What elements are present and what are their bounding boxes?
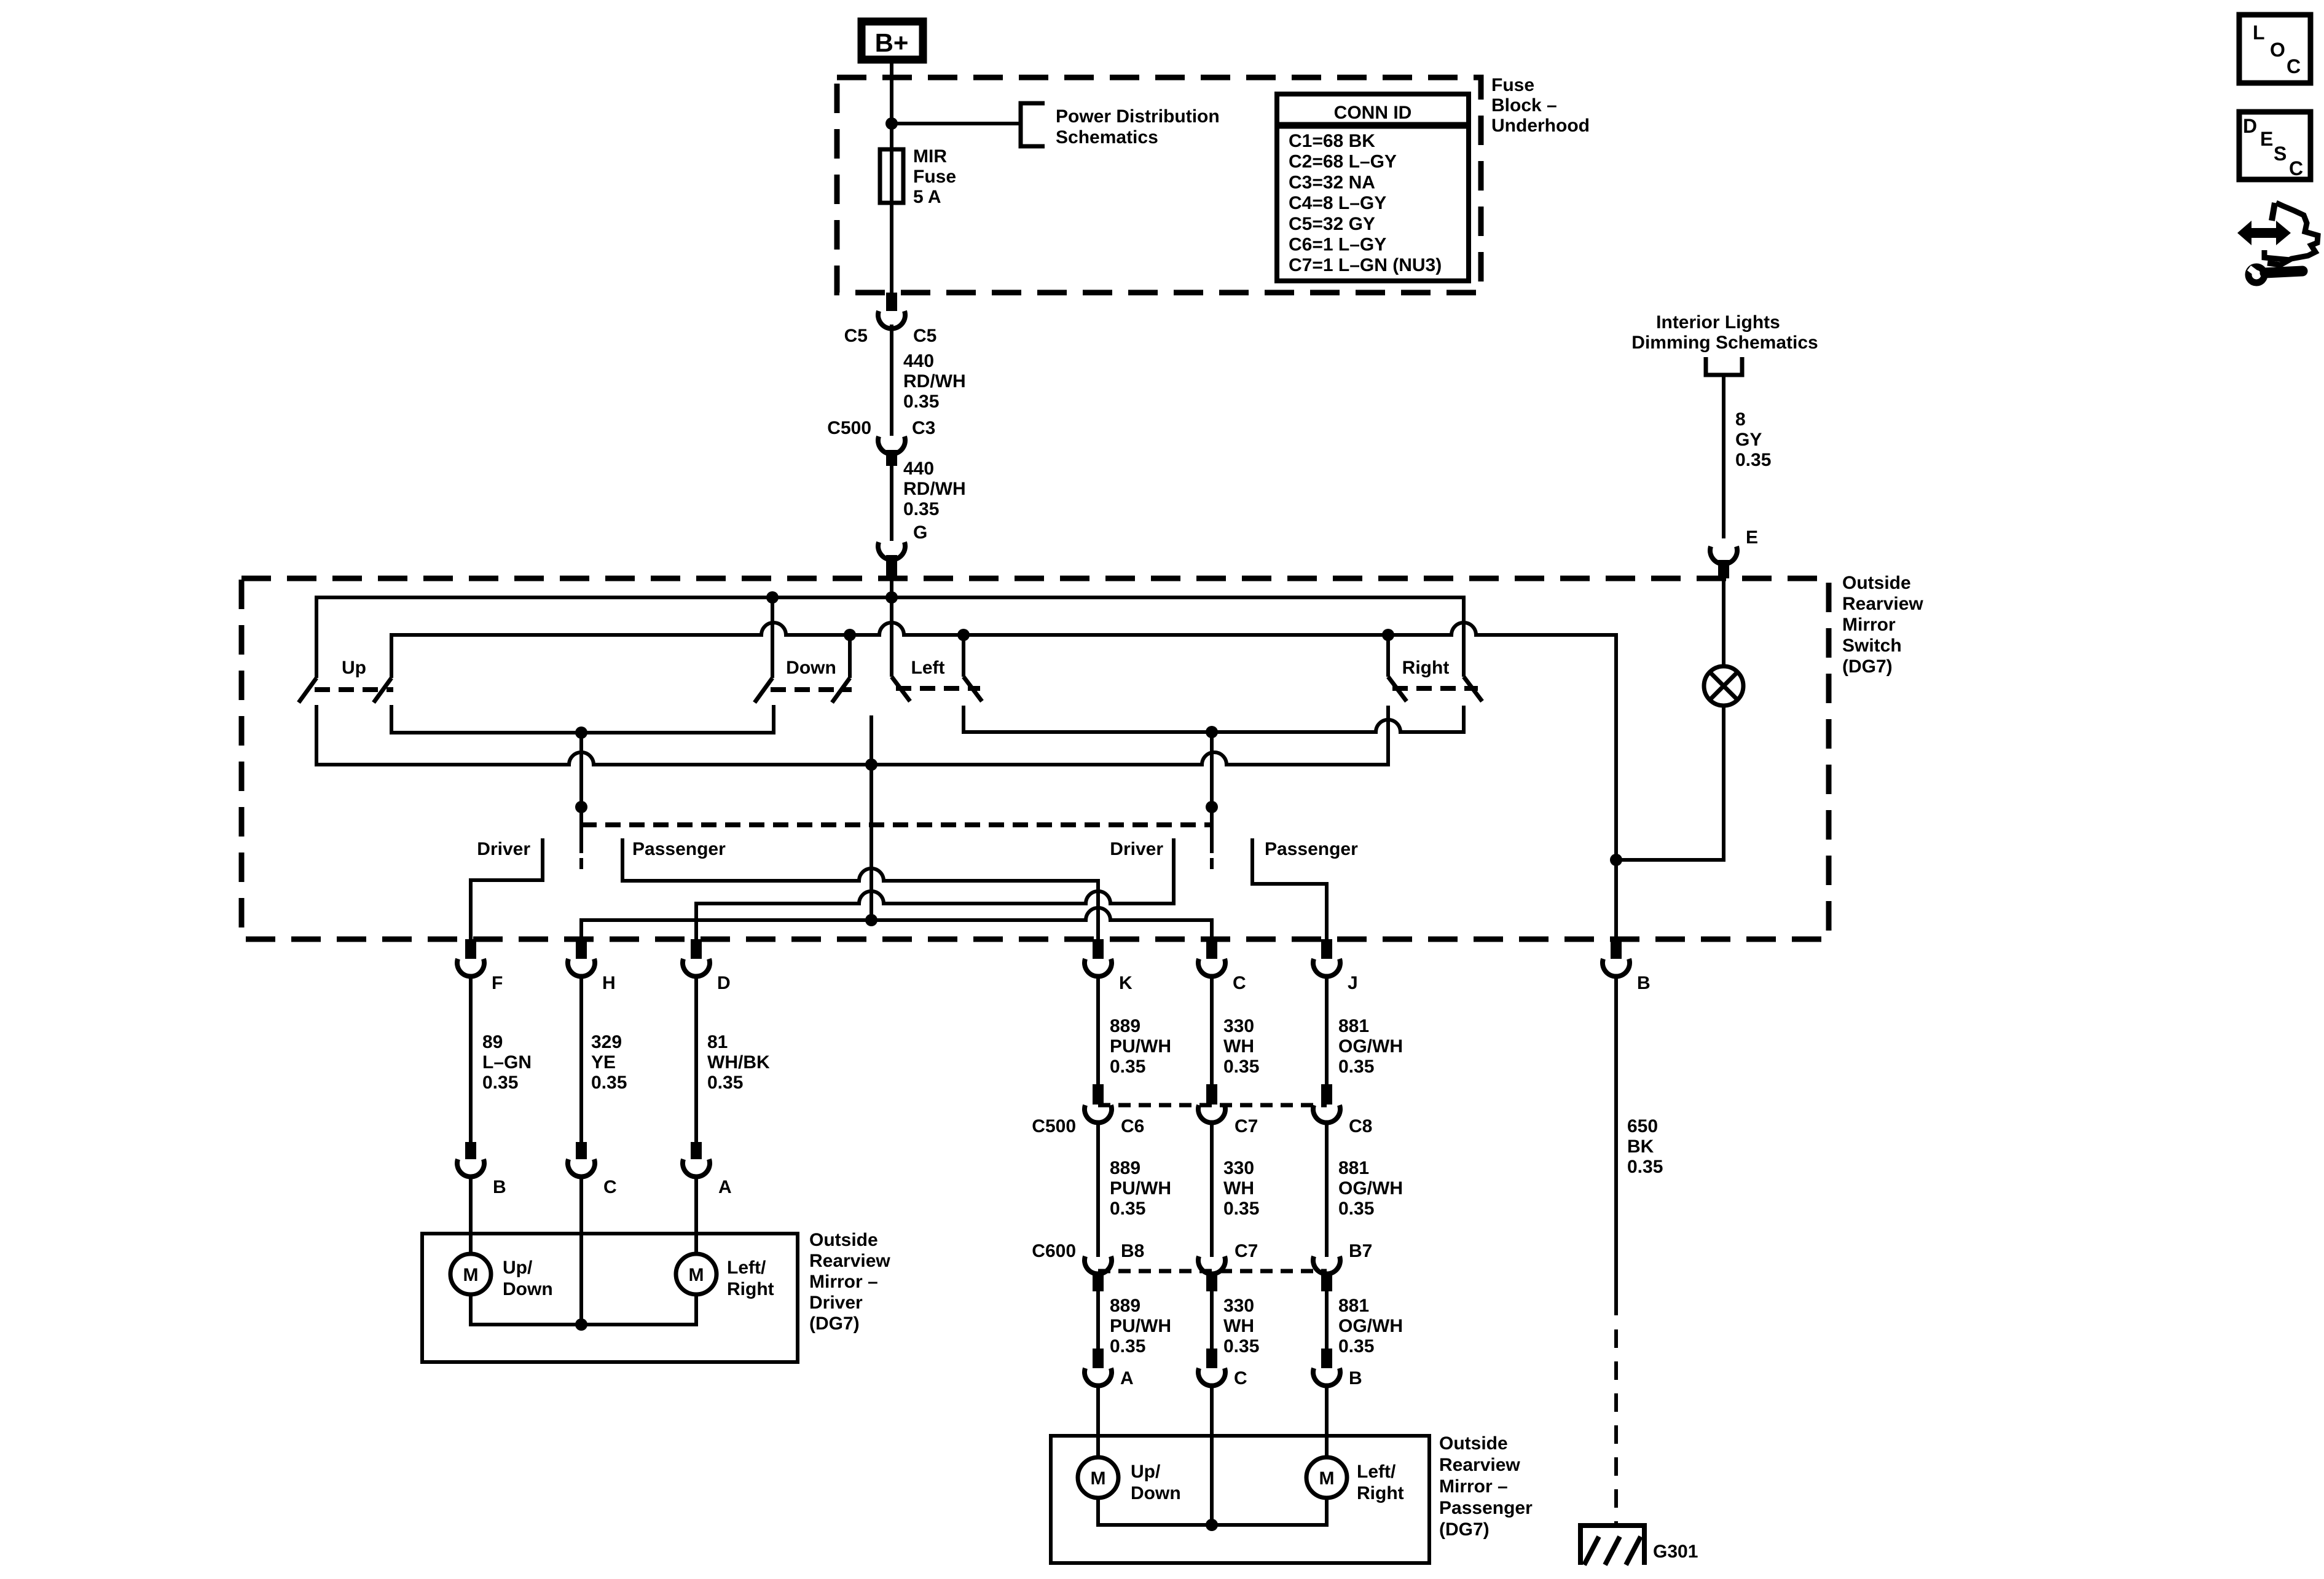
svg-text:Up: Up	[342, 658, 366, 678]
connector C500 C8	[1313, 1105, 1340, 1123]
wire 889 PU/WH 0.35 (a)	[1096, 976, 1100, 1084]
svg-text:C500: C500	[827, 418, 871, 438]
svg-text:B7: B7	[1349, 1241, 1372, 1261]
wire 881 OG/WH 0.35 (c)	[1325, 1291, 1329, 1349]
svg-text:881: 881	[1338, 1296, 1369, 1316]
svg-text:0.35: 0.35	[1223, 1199, 1259, 1219]
DESC reference box	[2239, 112, 2310, 179]
svg-text:Rearview: Rearview	[1439, 1455, 1520, 1475]
wire 881 OG/WH 0.35 (b)	[1325, 1122, 1329, 1257]
svg-text:5 A: 5 A	[913, 187, 941, 207]
svg-text:330: 330	[1223, 1016, 1254, 1036]
wire Left-Right outputs W3	[964, 706, 1464, 732]
svg-text:Interior Lights: Interior Lights	[1656, 312, 1780, 333]
svg-text:0.35: 0.35	[1627, 1157, 1663, 1177]
wire selector right common	[1210, 732, 1214, 853]
svg-text:Driver: Driver	[1110, 839, 1163, 859]
connector passenger mirror B	[1313, 1368, 1340, 1386]
navigation icon	[2237, 221, 2291, 245]
svg-text:G: G	[913, 522, 927, 543]
connector driver mirror B	[457, 1159, 484, 1177]
switch Down blades	[755, 678, 772, 703]
wire 89 L-GN 0.35	[469, 976, 473, 1142]
node passenger common	[1206, 1519, 1218, 1531]
svg-text:PU/WH: PU/WH	[1110, 1036, 1171, 1057]
bracket Power Distribution Schematics	[1021, 103, 1045, 146]
connector driver mirror B stub	[465, 1142, 476, 1159]
svg-text:0.35: 0.35	[903, 392, 939, 412]
svg-text:Passenger: Passenger	[1265, 839, 1358, 859]
svg-text:C6=1 L–GY: C6=1 L–GY	[1289, 235, 1386, 255]
wire top bus	[316, 597, 1464, 678]
svg-text:PU/WH: PU/WH	[1110, 1178, 1171, 1199]
connector C600 C7b	[1198, 1256, 1225, 1274]
svg-text:0.35: 0.35	[1338, 1057, 1374, 1077]
node bus Down right	[844, 629, 856, 641]
connector driver mirror A stub	[691, 1142, 702, 1159]
svg-text:Down: Down	[1131, 1483, 1181, 1503]
wire 889 PU/WH 0.35 (b)	[1096, 1122, 1100, 1257]
wire 440 RD/WH lower	[890, 466, 893, 541]
connector C600 dashed link	[1098, 1269, 1327, 1274]
motor passenger up/down	[1078, 1457, 1118, 1498]
wire 81 WH/BK 0.35	[694, 976, 698, 1142]
svg-text:M: M	[689, 1265, 704, 1285]
connector F	[457, 959, 484, 977]
svg-text:0.35: 0.35	[1338, 1199, 1374, 1219]
node driver common	[575, 1318, 587, 1331]
svg-text:C1=68 BK: C1=68 BK	[1289, 131, 1375, 151]
wire Driver contact to D	[696, 838, 1174, 939]
wire to power distribution bracket	[892, 122, 1021, 125]
connector driver mirror C	[568, 1159, 595, 1177]
connector C600 B7	[1313, 1256, 1340, 1274]
svg-text:C: C	[2289, 157, 2303, 179]
svg-text:WH: WH	[1223, 1316, 1254, 1336]
connector J stub	[1321, 939, 1332, 959]
svg-text:GY: GY	[1735, 430, 1762, 450]
connector passenger mirror C stub	[1206, 1349, 1217, 1368]
svg-text:81: 81	[707, 1032, 728, 1052]
svg-text:881: 881	[1338, 1016, 1369, 1036]
wire 329 YE 0.35	[579, 976, 583, 1142]
svg-text:RD/WH: RD/WH	[903, 371, 966, 392]
svg-text:330: 330	[1223, 1296, 1254, 1316]
switch Left blades	[892, 677, 910, 701]
svg-text:Rearview: Rearview	[1842, 594, 1923, 614]
node W1 selector tap	[575, 726, 587, 739]
wire 881 OG/WH 0.35 (a)	[1325, 976, 1329, 1084]
connector C500 C8 stub	[1321, 1084, 1332, 1105]
connector B	[1603, 959, 1630, 977]
connector C600 B8 stub	[1093, 1274, 1104, 1291]
switch Up linkage	[315, 687, 393, 692]
svg-text:8: 8	[1735, 409, 1746, 430]
svg-text:Driver: Driver	[809, 1293, 863, 1313]
node selector right linkage	[1206, 801, 1218, 813]
node W3 selector tap	[1206, 726, 1218, 738]
passenger mirror box	[1051, 1436, 1429, 1563]
svg-text:0.35: 0.35	[707, 1073, 743, 1093]
svg-text:A: A	[1120, 1368, 1134, 1388]
wire Right switch left terminal	[1386, 635, 1390, 677]
svg-text:330: 330	[1223, 1158, 1254, 1178]
svg-text:(DG7): (DG7)	[1439, 1519, 1490, 1540]
connector F stub	[465, 939, 476, 959]
svg-text:OG/WH: OG/WH	[1338, 1316, 1403, 1336]
svg-text:0.35: 0.35	[482, 1073, 518, 1093]
wire 8 GY	[1722, 375, 1725, 538]
svg-text:C6: C6	[1121, 1116, 1144, 1136]
wire 330 WH 0.35 (c)	[1210, 1291, 1214, 1349]
svg-text:Left/: Left/	[1357, 1462, 1396, 1482]
svg-text:C: C	[1234, 1368, 1247, 1388]
svg-text:C7=1 L–GN (NU3): C7=1 L–GN (NU3)	[1289, 255, 1442, 275]
connector driver mirror C stub	[576, 1142, 587, 1159]
wire E into box	[1722, 578, 1725, 666]
fuse MIR 5 A	[880, 149, 903, 203]
ground G301	[1578, 1523, 1647, 1528]
selector right blade dash	[1210, 858, 1214, 869]
svg-text:Fuse: Fuse	[1491, 75, 1534, 95]
svg-text:E: E	[2260, 128, 2273, 150]
selector left blade dash	[579, 858, 583, 869]
svg-text:Outside: Outside	[1439, 1433, 1508, 1454]
svg-text:B8: B8	[1121, 1241, 1144, 1261]
svg-text:881: 881	[1338, 1158, 1369, 1178]
switch Right blades	[1388, 677, 1407, 701]
svg-text:YE: YE	[591, 1052, 616, 1073]
svg-text:(DG7): (DG7)	[809, 1313, 860, 1334]
svg-text:WH: WH	[1223, 1036, 1254, 1057]
connector C500 C7 stub	[1206, 1084, 1217, 1105]
wire Driver contact to F	[471, 838, 543, 939]
svg-text:M: M	[1091, 1468, 1106, 1489]
switch Right linkage	[1392, 686, 1478, 691]
svg-text:B: B	[1349, 1368, 1362, 1388]
connector C500 C6	[1085, 1105, 1112, 1123]
svg-text:0.35: 0.35	[591, 1073, 627, 1093]
svg-text:(DG7): (DG7)	[1842, 656, 1893, 677]
svg-text:440: 440	[903, 351, 934, 371]
svg-text:Left: Left	[911, 658, 945, 678]
svg-text:C5=32 GY: C5=32 GY	[1289, 214, 1375, 234]
svg-text:B: B	[493, 1177, 506, 1197]
svg-text:440: 440	[903, 459, 934, 479]
switch Left linkage	[896, 686, 980, 691]
svg-text:Right: Right	[727, 1279, 774, 1299]
svg-text:M: M	[1319, 1468, 1335, 1489]
CONN ID table	[1277, 94, 1469, 281]
wire selector left common	[579, 733, 583, 853]
svg-text:Left/: Left/	[727, 1258, 766, 1278]
connector D stub	[691, 939, 702, 959]
svg-text:C5: C5	[913, 326, 936, 346]
node center to common	[865, 914, 877, 926]
svg-text:Block –: Block –	[1491, 95, 1557, 116]
lamp illumination	[1704, 666, 1743, 706]
bracket interior lights	[1706, 357, 1742, 375]
svg-text:J: J	[1348, 973, 1358, 993]
connector passenger mirror A stub	[1093, 1349, 1104, 1368]
connector passenger mirror C	[1198, 1368, 1225, 1386]
svg-text:Mirror –: Mirror –	[1439, 1476, 1508, 1497]
svg-text:BK: BK	[1627, 1136, 1654, 1157]
node lamp ground	[1610, 854, 1622, 866]
connector B stub	[1611, 939, 1622, 959]
connector J	[1313, 959, 1340, 977]
wire driver motors common	[471, 1294, 696, 1325]
node bus Left right	[957, 629, 970, 641]
svg-text:329: 329	[591, 1032, 622, 1052]
wire Left switch right terminal	[962, 635, 965, 677]
svg-text:C5: C5	[844, 326, 868, 346]
node selector left linkage	[575, 801, 587, 813]
connector C500 C7	[1198, 1105, 1225, 1123]
svg-text:Switch: Switch	[1842, 636, 1902, 656]
svg-text:Down: Down	[503, 1279, 553, 1299]
node bus Right left	[1382, 629, 1394, 641]
wire C to driver common	[579, 1176, 583, 1325]
svg-text:Up/: Up/	[503, 1258, 533, 1278]
svg-text:Fuse: Fuse	[913, 167, 956, 187]
connector driver mirror A	[683, 1159, 710, 1177]
wire Down switch left terminal	[771, 597, 774, 678]
LOC reference box	[2239, 15, 2310, 83]
svg-text:C7: C7	[1235, 1241, 1258, 1261]
svg-text:RD/WH: RD/WH	[903, 479, 966, 499]
wire 650 BK dashed segment	[1614, 1329, 1618, 1526]
svg-text:Dimming Schematics: Dimming Schematics	[1631, 333, 1818, 353]
svg-text:889: 889	[1110, 1296, 1140, 1316]
motor driver left/right	[676, 1254, 716, 1294]
svg-text:WH: WH	[1223, 1178, 1254, 1199]
svg-text:0.35: 0.35	[1110, 1199, 1145, 1219]
wire B+ to fuse	[890, 62, 893, 293]
connector K	[1085, 959, 1112, 977]
mirror switch dashed box	[241, 578, 1829, 939]
svg-text:Mirror: Mirror	[1842, 615, 1896, 635]
wire C to passenger common	[1210, 1385, 1214, 1525]
wire B to passenger LR motor	[1325, 1385, 1329, 1457]
wire Passenger contact to K	[622, 838, 1098, 939]
svg-text:0.35: 0.35	[1110, 1336, 1145, 1357]
svg-text:C3=32 NA: C3=32 NA	[1289, 172, 1375, 192]
svg-text:C3: C3	[912, 418, 935, 438]
svg-text:Rearview: Rearview	[809, 1251, 890, 1271]
connector C stub	[1206, 939, 1217, 959]
driver mirror box	[422, 1234, 798, 1362]
svg-text:Right: Right	[1357, 1483, 1404, 1503]
svg-text:Up/: Up/	[1131, 1462, 1161, 1482]
wire passenger motors common	[1098, 1498, 1327, 1525]
wire Down switch right terminal	[848, 635, 852, 678]
wire lamp to ground bus	[1616, 706, 1724, 860]
wire 650 BK 0.35	[1614, 976, 1618, 1315]
svg-text:0.35: 0.35	[1223, 1057, 1259, 1077]
connector K stub	[1093, 939, 1104, 959]
wire Up-Right output W2	[316, 705, 1388, 765]
wire ground bus	[391, 623, 1616, 939]
svg-text:C4=8 L–GY: C4=8 L–GY	[1289, 193, 1386, 213]
selector linkage dashed	[581, 822, 1212, 827]
wire common H to C	[581, 908, 1212, 939]
connector C600 C7b stub	[1206, 1274, 1217, 1291]
svg-text:Power Distribution: Power Distribution	[1056, 106, 1220, 127]
svg-text:B+: B+	[875, 28, 909, 57]
svg-text:L: L	[2253, 22, 2265, 44]
connector D	[683, 959, 710, 977]
svg-text:G301: G301	[1653, 1542, 1698, 1562]
svg-text:D: D	[717, 973, 731, 993]
connector C	[1198, 959, 1225, 977]
connector passenger mirror A	[1085, 1368, 1112, 1386]
svg-text:Mirror –: Mirror –	[809, 1272, 878, 1292]
svg-text:C600: C600	[1032, 1241, 1076, 1261]
svg-text:M: M	[463, 1265, 479, 1285]
svg-text:C: C	[2287, 55, 2301, 77]
connector C500 C6 stub	[1093, 1084, 1104, 1105]
svg-text:O: O	[2270, 39, 2285, 61]
svg-text:650: 650	[1627, 1116, 1658, 1136]
svg-text:Schematics: Schematics	[1056, 127, 1158, 148]
switch Up blades	[299, 678, 316, 703]
connector C5 stub	[886, 293, 897, 311]
svg-text:C: C	[603, 1177, 617, 1197]
svg-text:Passenger: Passenger	[1439, 1498, 1533, 1518]
wire center contact drop	[870, 715, 873, 920]
svg-text:S: S	[2274, 143, 2287, 165]
wire Up outputs W1	[391, 705, 774, 733]
svg-text:0.35: 0.35	[1338, 1336, 1374, 1357]
svg-text:WH/BK: WH/BK	[707, 1052, 770, 1073]
svg-text:D: D	[2243, 115, 2257, 137]
svg-text:Right: Right	[1402, 658, 1450, 678]
svg-text:K: K	[1119, 973, 1133, 993]
svg-text:0.35: 0.35	[1110, 1057, 1145, 1077]
connector passenger mirror B stub	[1321, 1349, 1332, 1368]
svg-text:89: 89	[482, 1032, 503, 1052]
svg-text:0.35: 0.35	[1223, 1336, 1259, 1357]
svg-text:C: C	[1233, 973, 1246, 993]
node W2 center tap	[865, 758, 877, 771]
svg-text:C2=68 L–GY: C2=68 L–GY	[1289, 152, 1397, 172]
svg-text:C500: C500	[1032, 1116, 1076, 1136]
motor driver up/down	[450, 1254, 491, 1294]
svg-text:889: 889	[1110, 1016, 1140, 1036]
connector C5	[878, 311, 905, 329]
connector H stub	[576, 939, 587, 959]
wire G feed into switch	[890, 578, 893, 677]
svg-text:Underhood: Underhood	[1491, 116, 1590, 136]
wire B to driver UD motor	[469, 1176, 473, 1254]
fuse block dashed box (Fuse Block - Underhood)	[837, 77, 1481, 293]
svg-text:OG/WH: OG/WH	[1338, 1036, 1403, 1057]
svg-text:MIR: MIR	[913, 146, 947, 167]
svg-text:OG/WH: OG/WH	[1338, 1178, 1403, 1199]
connector C600 B7 stub	[1321, 1274, 1332, 1291]
svg-text:Down: Down	[786, 658, 836, 678]
svg-text:C8: C8	[1349, 1116, 1372, 1136]
switch Down linkage	[771, 687, 852, 692]
node top bus Down switch	[766, 591, 779, 604]
wire 889 PU/WH 0.35 (c)	[1096, 1291, 1100, 1349]
svg-text:0.35: 0.35	[1735, 450, 1771, 470]
svg-text:PU/WH: PU/WH	[1110, 1316, 1171, 1336]
svg-text:C7: C7	[1235, 1116, 1258, 1136]
svg-text:Driver: Driver	[477, 839, 530, 859]
wire Passenger contact to J	[1252, 838, 1327, 939]
connector H	[568, 959, 595, 977]
svg-text:B: B	[1637, 973, 1651, 993]
svg-text:Outside: Outside	[809, 1230, 878, 1250]
svg-text:A: A	[718, 1177, 732, 1197]
svg-text:E: E	[1746, 527, 1758, 548]
wire A to driver LR motor	[694, 1176, 698, 1254]
svg-text:L–GN: L–GN	[482, 1052, 532, 1073]
svg-text:CONN ID: CONN ID	[1334, 103, 1412, 123]
connector C600 B8	[1085, 1256, 1112, 1274]
motor passenger left/right	[1306, 1457, 1347, 1498]
node junction on B+ feed	[885, 117, 898, 130]
svg-text:889: 889	[1110, 1158, 1140, 1178]
battery feed B+ box	[862, 22, 923, 60]
node feed to top bus	[885, 591, 898, 604]
svg-text:0.35: 0.35	[903, 499, 939, 519]
svg-text:Passenger: Passenger	[632, 839, 726, 859]
connector C500 dashed link	[1098, 1103, 1327, 1108]
wire A to passenger UD motor	[1096, 1385, 1100, 1457]
svg-text:F: F	[492, 973, 503, 993]
svg-text:Outside: Outside	[1842, 573, 1911, 593]
wire 330 WH 0.35 (a)	[1210, 976, 1214, 1084]
svg-text:H: H	[602, 973, 616, 993]
wire 440 RD/WH upper	[890, 325, 893, 436]
wire 330 WH 0.35 (b)	[1210, 1122, 1214, 1257]
